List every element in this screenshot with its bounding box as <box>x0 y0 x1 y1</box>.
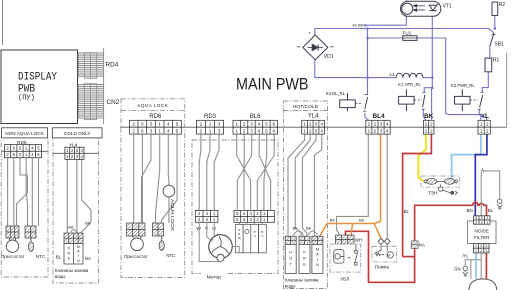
resistor R2 <box>492 2 498 15</box>
connector BL6 <box>233 120 278 134</box>
wire orange branch to valves <box>320 224 374 237</box>
svg-text:H: H <box>289 251 292 255</box>
wire SB1 to R1 <box>489 48 491 59</box>
svg-text:1: 1 <box>158 128 161 133</box>
node junction dots <box>366 27 496 89</box>
wire BL4 pin4 to pump right <box>386 134 388 239</box>
wire RD6 pin b down <box>141 134 143 223</box>
pressure switch box1 <box>6 238 18 252</box>
motor M1 <box>209 234 233 258</box>
svg-text:2: 2 <box>480 244 482 248</box>
svg-text:1: 1 <box>235 121 238 126</box>
wire valve jumper arc2 <box>308 231 318 235</box>
thermistor NTC box1 <box>28 238 33 251</box>
svg-text:NTC: NTC <box>36 254 45 259</box>
svg-text:ВК: ВК <box>306 226 312 231</box>
svg-text:RD4: RD4 <box>106 62 119 69</box>
svg-text:CN2: CN2 <box>107 99 120 106</box>
svg-text:NA: NA <box>85 256 91 261</box>
svg-text:4: 4 <box>258 121 261 126</box>
wire BL6 pin2 straight <box>243 134 245 210</box>
svg-text:NTC: NTC <box>166 253 175 258</box>
svg-text:NON AQUA LOCK: NON AQUA LOCK <box>5 131 44 136</box>
svg-text:1: 1 <box>486 220 488 224</box>
svg-text:NA: NA <box>419 242 425 247</box>
wire yellow BK pin1 to heater <box>418 134 426 181</box>
display board U2 DISPLAY PWB <box>1 50 78 124</box>
wire earth second leg to plug <box>470 260 472 279</box>
svg-text:Помпа: Помпа <box>375 264 390 269</box>
svg-text:/YL: /YL <box>462 254 469 259</box>
svg-text:3: 3 <box>150 128 153 133</box>
svg-text:RD6: RD6 <box>17 140 27 146</box>
connector door lock <box>335 235 354 244</box>
wire AC bus VD1 top to SB1 <box>315 29 494 36</box>
svg-text:HOT/COLD: HOT/COLD <box>293 104 319 110</box>
svg-text:BL6: BL6 <box>250 114 261 120</box>
svg-text:BL4: BL4 <box>373 113 386 120</box>
svg-text:Клапаны залива: Клапаны залива <box>285 277 319 282</box>
svg-text:RD6: RD6 <box>149 114 162 120</box>
svg-text:2: 2 <box>243 128 246 133</box>
svg-text:2: 2 <box>132 121 135 126</box>
wire BL4 pin1 to door lock pin1 <box>337 134 369 235</box>
svg-text:6: 6 <box>141 121 144 126</box>
pump terminals <box>378 238 390 244</box>
connector YL4 <box>302 120 325 134</box>
svg-text:ВК: ВК <box>359 217 365 222</box>
wire BL6 pin6 crossing <box>257 134 274 210</box>
svg-text:O: O <box>289 257 292 261</box>
wire K3 switch to BL4 pin1 <box>365 113 369 120</box>
valve MAIN <box>312 236 323 244</box>
svg-text:ВК: ВК <box>330 217 336 222</box>
svg-text:R: R <box>67 252 70 256</box>
svg-text:3: 3 <box>250 128 253 133</box>
wire motor W loop to tacho <box>199 222 239 261</box>
wire net node column x367 <box>367 29 369 95</box>
wire red tap to NA column <box>403 256 415 258</box>
svg-text:GN: GN <box>454 266 461 271</box>
svg-text:BL: BL <box>488 208 494 213</box>
svg-text:2: 2 <box>132 128 135 133</box>
wire YL4 pin4 to MAIN valve <box>314 134 321 236</box>
svg-text:2: 2 <box>200 128 203 133</box>
wire red NA to pump loop to door lock <box>346 231 415 282</box>
wire RD3 pin3 to motor U <box>214 134 219 210</box>
heater TEN <box>421 176 460 187</box>
svg-text:3: 3 <box>475 220 477 224</box>
bridge rectifier VD1 <box>297 35 334 60</box>
relay K3 <box>340 93 368 111</box>
svg-text:VT1: VT1 <box>443 4 452 10</box>
pressure switch box3 <box>131 236 144 251</box>
svg-text:Ч: Ч <box>261 234 263 238</box>
valve block 2-way box2 <box>64 233 83 244</box>
svg-text:3: 3 <box>250 121 253 126</box>
svg-text:5: 5 <box>176 121 179 126</box>
svg-text:YL4: YL4 <box>308 114 319 120</box>
connector filter top <box>474 216 491 224</box>
aqua-lock sensor <box>163 185 175 197</box>
svg-text:3: 3 <box>485 244 487 248</box>
wire red noise filter to plug <box>485 253 487 279</box>
svg-text:Мотор: Мотор <box>207 275 222 281</box>
svg-text:2: 2 <box>480 249 482 253</box>
svg-text:M: M <box>77 245 80 249</box>
wire R2 to bus <box>494 16 496 29</box>
svg-text:(ПУ): (ПУ) <box>18 95 35 103</box>
fuse FU1 <box>403 36 417 41</box>
svg-text:Прессостат: Прессостат <box>1 254 24 259</box>
svg-text:УБЛ: УБЛ <box>340 277 349 282</box>
connector YL <box>478 120 490 134</box>
svg-text:6: 6 <box>272 128 275 133</box>
connector RD4 ribbon cable <box>78 52 119 78</box>
wire left-edge stub <box>2 0 4 45</box>
connector block NTC box1 <box>25 226 36 238</box>
motor terminal labels <box>235 225 266 253</box>
svg-text:N: N <box>77 259 80 263</box>
wire YL4 pin2 to PRE valve <box>295 134 310 236</box>
thermistor NTC box3 <box>159 236 164 250</box>
svg-text:YL: YL <box>481 113 489 120</box>
connector RD3 <box>196 120 223 134</box>
svg-text:AC180V: AC180V <box>352 24 365 28</box>
region box AQUA LOCK <box>121 99 185 278</box>
svg-text:SB1: SB1 <box>494 41 504 47</box>
wire R1 to K2 switch feed <box>482 72 488 92</box>
svg-text:+: + <box>308 31 311 36</box>
region box Motor <box>192 140 278 274</box>
connector block NTC box3 <box>153 223 164 236</box>
wire valve jumper arc1 <box>293 231 303 235</box>
svg-text:2: 2 <box>200 121 203 126</box>
door interlock UBL <box>330 244 361 272</box>
mains plug <box>469 279 497 290</box>
svg-text:BK: BK <box>85 221 91 226</box>
wire RD6-left pin1 down <box>7 158 9 226</box>
svg-text:2: 2 <box>481 220 483 224</box>
svg-text:1: 1 <box>209 121 212 126</box>
region box NON AQUA LOCK <box>1 138 48 278</box>
ground chassis right <box>497 199 502 209</box>
svg-text:R: R <box>303 257 306 261</box>
svg-text:E: E <box>303 263 306 267</box>
svg-text:N: N <box>316 263 319 267</box>
wire K2 switch to YL pin2 hook <box>479 110 487 121</box>
svg-text:ТЭН: ТЭН <box>428 191 437 196</box>
svg-text:5: 5 <box>265 121 268 126</box>
wire YL4 pin3 to PRE valve right <box>302 134 316 236</box>
wire AC sense line to VT1 left pin <box>367 16 407 25</box>
wire RD3 pin2 to motor V <box>207 134 210 210</box>
connector block pressostat box3 <box>127 223 146 236</box>
wire YL4-left pin4 BK jog <box>81 159 91 233</box>
wire red BK pin2 distribution <box>403 134 432 257</box>
connector filter bottom <box>473 243 489 253</box>
opto-triac VT1 <box>401 1 441 16</box>
wire YL4-left pin3 to valve <box>76 159 78 233</box>
svg-text:DISPLAY: DISPLAY <box>18 72 57 84</box>
connector motor WVU <box>195 210 218 222</box>
wire red NA to noise filter with hops <box>415 202 487 241</box>
svg-text:3: 3 <box>218 128 221 133</box>
main board right edge <box>506 53 508 128</box>
svg-text:3: 3 <box>150 121 153 126</box>
valve HOT <box>285 236 296 244</box>
resistor R1 <box>485 58 492 72</box>
pump M2 <box>372 246 397 262</box>
svg-text:3: 3 <box>485 249 487 253</box>
inductor L1 <box>396 73 423 77</box>
wire VD1 bottom rail with L1 to VT1 right pin <box>315 60 396 78</box>
wire earth tap to GN ground <box>465 260 481 266</box>
wire earth filter pin2 down to plug <box>480 253 482 279</box>
connector CN2 ribbon cable <box>78 48 120 124</box>
wire BL6 pin4 crossing <box>259 134 270 210</box>
svg-text:BL: BL <box>404 209 410 214</box>
wire K1 switch to BK pin1 <box>423 110 426 121</box>
svg-text:L1: L1 <box>390 72 396 78</box>
wire aqua-lock down <box>168 197 170 223</box>
wire VT1 right pin down to BK pin2 <box>431 16 434 120</box>
svg-text:Клапаны залива: Клапаны залива <box>55 268 89 273</box>
wire light-blue YL pin1 to heater right <box>452 134 481 181</box>
main board bottom edge <box>120 126 507 128</box>
connector BL4 <box>366 120 390 134</box>
connector NA <box>411 241 418 248</box>
svg-text:K3 DL_RL: K3 DL_RL <box>326 91 346 96</box>
svg-text:6: 6 <box>272 121 275 126</box>
svg-text:1: 1 <box>235 128 238 133</box>
svg-text:4: 4 <box>167 128 170 133</box>
wire RD3 pin1 to motor W <box>199 134 201 210</box>
svg-text:ВК: ВК <box>68 225 74 230</box>
svg-text:P: P <box>303 251 306 255</box>
wire YL4 pin1 to HOT valve <box>288 134 305 236</box>
svg-text:A: A <box>316 253 319 257</box>
svg-text:R1: R1 <box>493 58 500 64</box>
svg-text:M: M <box>387 254 390 258</box>
svg-text:I: I <box>317 258 318 262</box>
svg-text:воды: воды <box>285 283 295 288</box>
svg-text:4: 4 <box>258 128 261 133</box>
svg-text:BL: BL <box>56 254 62 259</box>
wire RD6-left pin6 down <box>38 158 40 226</box>
wire BL6 pin1 crossing <box>237 134 251 210</box>
connector motor main <box>234 210 274 222</box>
svg-text:R2: R2 <box>499 2 506 8</box>
svg-text:K2 PWR_RL: K2 PWR_RL <box>451 83 475 88</box>
svg-text:M: M <box>316 248 319 252</box>
svg-text:1: 1 <box>158 121 161 126</box>
svg-text:1: 1 <box>475 249 477 253</box>
thermostat at heater <box>439 184 458 194</box>
wire FU1 branch <box>368 37 403 39</box>
svg-text:Щ: Щ <box>238 236 241 240</box>
svg-text:5: 5 <box>176 128 179 133</box>
svg-text:FU1: FU1 <box>403 31 412 36</box>
wire valve jumper arc box2 <box>71 229 76 232</box>
ground GN <box>463 266 468 276</box>
wire RD6 pin c jog <box>142 134 152 223</box>
tacho generator <box>217 254 224 261</box>
svg-text:6: 6 <box>141 128 144 133</box>
svg-text:MAIN PWB: MAIN PWB <box>236 76 309 94</box>
valve PRE <box>299 236 310 244</box>
noise filter Z1 <box>468 221 497 244</box>
wire earth filter pin2 up to chassis ground <box>481 169 500 216</box>
region box COLD ONLY <box>53 138 99 284</box>
svg-text:YL4: YL4 <box>69 142 78 148</box>
wire RD6 pin f jog <box>162 134 178 223</box>
connector RD6 left copy <box>1 150 47 152</box>
relay K2 <box>455 89 484 111</box>
svg-text:FILTER: FILTER <box>474 235 490 240</box>
connector RD6 <box>129 120 181 134</box>
svg-text:2: 2 <box>243 121 246 126</box>
wire RD6 pin e to aqua-lock <box>167 134 170 185</box>
svg-text:NOISE: NOISE <box>475 228 489 233</box>
wire RD6-left pin3 zigzag <box>17 158 28 226</box>
wire RD6 pin d jog <box>156 134 160 223</box>
svg-text:K1 HTR_RL: K1 HTR_RL <box>398 82 421 87</box>
svg-text:3: 3 <box>218 121 221 126</box>
svg-text:воды: воды <box>55 274 65 279</box>
wire BL6 pin3 crossing <box>237 134 251 210</box>
wire YL4-left pin1 to valve <box>66 159 68 233</box>
wire orange BL4 pin3 to pump left <box>374 134 381 239</box>
wire BL6 pin5 straight <box>264 134 267 210</box>
svg-text:Ч: Ч <box>254 234 256 238</box>
svg-text:AQUA LOCK: AQUA LOCK <box>137 103 168 108</box>
wire RD6-left pin4 down <box>26 158 27 226</box>
wire VT1 left pin top stub <box>405 0 407 1</box>
svg-text:AQUA LOCK: AQUA LOCK <box>170 199 175 231</box>
svg-text:RD3: RD3 <box>204 114 217 120</box>
wire K1 switch feed <box>424 88 432 92</box>
connector YL4 left copy <box>53 152 99 154</box>
svg-text:VD1: VD1 <box>324 54 334 60</box>
svg-text:Прессостат: Прессостат <box>124 254 147 259</box>
svg-text:5: 5 <box>265 128 268 133</box>
wire dark-blue YL pin2 to noise filter <box>475 134 487 216</box>
svg-text:ВК: ВК <box>293 226 299 231</box>
svg-text:I: I <box>78 254 79 258</box>
wire RD6-left pin2 down <box>13 158 15 226</box>
connector block pressostat box1 <box>6 226 19 238</box>
relay K1 <box>399 89 426 111</box>
wire orange branch to door lock pin3 <box>351 224 352 236</box>
svg-text:BN: BN <box>467 208 473 213</box>
svg-text:1: 1 <box>209 128 212 133</box>
wire light-blue filter pin1 to plug <box>475 253 477 279</box>
svg-text:1: 1 <box>475 244 477 248</box>
switch SB1 <box>490 33 496 47</box>
region box HOT/COLD valves <box>284 101 328 289</box>
wire RD6-left pin5 down <box>31 158 33 226</box>
svg-text:BK: BK <box>424 113 434 120</box>
connector BK <box>423 120 434 134</box>
svg-text:COLD ONLY: COLD ONLY <box>64 131 92 136</box>
svg-text:WH: WH <box>355 238 362 243</box>
wire RD6 pin a down <box>133 134 135 223</box>
svg-text:4: 4 <box>167 121 170 126</box>
